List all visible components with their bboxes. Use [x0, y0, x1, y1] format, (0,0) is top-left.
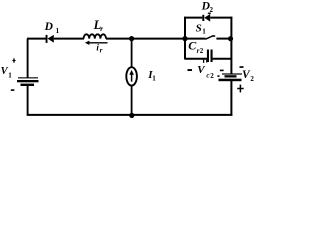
wire top-left horizontal segment [27, 38, 46, 40]
svg-text:D: D [44, 21, 54, 33]
label vc2 polarity text: minus right [220, 70, 224, 72]
battery V2 [219, 73, 243, 81]
stray tick below D2 label [208, 13, 211, 14]
wire between D1 and inductor [54, 38, 84, 40]
label V1 [1, 66, 13, 80]
wire current source branch upper [131, 39, 133, 67]
svg-text:r: r [100, 25, 103, 33]
svg-text:2: 2 [210, 72, 214, 80]
wire left rail top (corner down to battery V1) [27, 39, 29, 78]
wire right rail from main wire down to battery V2 [230, 39, 232, 74]
node junction dot right of switch [228, 36, 233, 41]
label minus of V1 [11, 89, 15, 91]
wire inductor to switch cell [106, 38, 185, 40]
diode D2 [202, 14, 210, 22]
wire Cr branch right horizontal [213, 58, 232, 60]
svg-text:2: 2 [250, 75, 254, 83]
node junction dot left of switch [182, 36, 187, 41]
svg-text:1: 1 [56, 27, 60, 35]
wire D2 branch top left [184, 17, 202, 19]
label D2 [201, 0, 214, 14]
svg-text:c: c [206, 72, 209, 80]
diode D1 [46, 35, 54, 43]
inductor Lr [84, 34, 106, 38]
label vc2 subscript c2 [206, 72, 214, 80]
node junction dot on bottom wire [129, 113, 134, 118]
label V2 [242, 69, 254, 83]
svg-text:r: r [100, 46, 103, 54]
node junction dot at current source tap [129, 36, 134, 41]
wire current source branch lower [131, 86, 133, 116]
battery V1 [17, 77, 39, 86]
svg-text:1: 1 [152, 75, 156, 83]
wire left rail bottom (battery V1 down to bottom wire) [27, 86, 29, 116]
wire bottom horizontal [27, 114, 233, 116]
stray dot below right minus [217, 75, 219, 77]
label S1 [196, 22, 207, 35]
wire Cr branch left horizontal [185, 58, 207, 60]
label vc2 polarity text: minus left [188, 69, 193, 71]
switch S1 [185, 36, 231, 40]
label ir [96, 43, 102, 55]
wire right rail from battery V2 down to bottom wire [230, 81, 232, 116]
label Lr [93, 18, 104, 33]
current arrow ir [85, 41, 108, 45]
label minus of V2 [240, 66, 244, 68]
current source I1 [126, 67, 137, 85]
label vc2 letter V with ticks [197, 59, 207, 76]
label I1 [147, 69, 156, 83]
svg-text:1: 1 [202, 27, 206, 35]
wire D2 branch top right [210, 17, 232, 19]
svg-text:S: S [196, 22, 202, 34]
label plus of V2 [237, 85, 244, 93]
wire right riser of cell (D2 top down to main wire) [230, 17, 232, 39]
label Cr2 [188, 39, 204, 56]
svg-text:2: 2 [200, 47, 204, 55]
wire left riser of cell (through main wire, D2 top to Cr bottom) [184, 17, 186, 60]
label plus of V1 [12, 58, 15, 62]
svg-text:1: 1 [8, 72, 12, 80]
capacitor Cr2 plates [207, 50, 213, 63]
label D1 [44, 21, 60, 35]
